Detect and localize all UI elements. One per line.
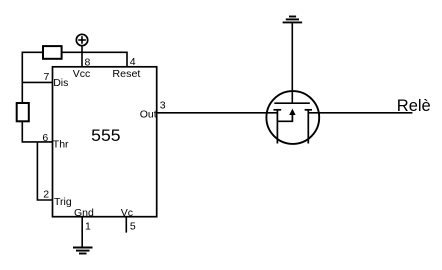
svg-text:555: 555 — [91, 127, 120, 145]
svg-text:Reset: Reset — [112, 68, 140, 80]
wire top horizontal from left corner to pin 4 corner — [22, 52, 127, 142]
wire pin 8 stub (Vcc) — [81, 52, 83, 67]
svg-text:Relè: Relè — [397, 97, 431, 115]
IC U1 555 timer body — [53, 67, 157, 217]
resistor R1 (horizontal, top) — [43, 46, 62, 59]
svg-text:Vcc: Vcc — [73, 68, 91, 80]
wire transistor right to Relè — [308, 112, 412, 114]
svg-text:6: 6 — [42, 132, 48, 144]
svg-text:5: 5 — [130, 221, 136, 233]
wire pin 5 stub (Vc) — [125, 217, 127, 233]
svg-text:Dis: Dis — [53, 77, 68, 89]
svg-text:3: 3 — [160, 99, 166, 111]
wire drain vertical to VCC rail — [291, 22, 293, 103]
svg-text:Out: Out — [140, 108, 157, 120]
wire Dis (pin 7) — [22, 81, 52, 83]
wire pin 1 stub (Gnd) — [81, 217, 83, 248]
ground GND1 — [73, 248, 93, 254]
transistor Q1 (MOSFET) — [266, 91, 319, 144]
svg-text:1: 1 — [85, 221, 91, 233]
svg-text:Thr: Thr — [53, 139, 69, 151]
wire Thr-Trig vertical link — [37, 142, 52, 200]
resistor R2 (vertical, left) — [17, 103, 29, 121]
svg-text:4: 4 — [130, 56, 136, 68]
svg-text:8: 8 — [85, 56, 91, 68]
wire Out (pin 3) to transistor — [157, 112, 278, 114]
wire Thr (pin 6) — [22, 141, 53, 143]
power VCC rail (inverted ground symbol) — [283, 17, 303, 23]
svg-text:Trig: Trig — [54, 196, 72, 208]
svg-text:Gnd: Gnd — [74, 207, 94, 219]
svg-text:2: 2 — [43, 189, 49, 201]
power supply V1 (+) — [76, 34, 87, 52]
transistor Q1 substrate arrow head — [289, 109, 295, 115]
svg-text:7: 7 — [44, 71, 50, 83]
